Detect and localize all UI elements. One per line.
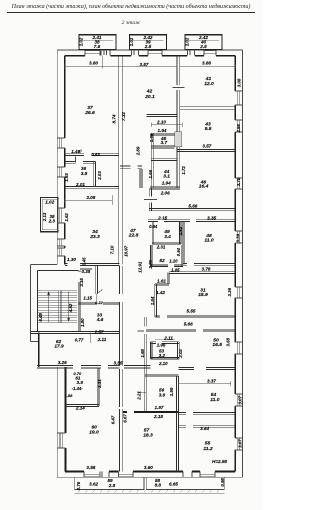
staircase down arrow: [67, 292, 70, 323]
dim 3.08: [237, 78, 242, 87]
balcony 59 area: [108, 483, 116, 488]
svg-text:0.63: 0.63: [91, 152, 100, 157]
room 53 walls: [151, 342, 180, 359]
balcony 59 outline: [75, 477, 144, 489]
svg-text:2.5: 2.5: [199, 44, 207, 49]
room 34 area: [89, 234, 100, 240]
window right wall 7: [235, 438, 242, 450]
dim 0.22: [95, 300, 104, 305]
wall between rooms 42 and 41 / 43: [177, 56, 180, 151]
svg-text:1.98: 1.98: [157, 343, 166, 348]
room 33 / stair block bottom wall: [31, 331, 120, 333]
svg-text:1.88: 1.88: [65, 393, 74, 398]
room 36 door mark: [75, 157, 77, 163]
dim 2.31 rot: [97, 379, 102, 389]
svg-text:1.61: 1.61: [157, 279, 166, 284]
dim 3.55: [114, 361, 123, 366]
window bottom wall 1: [84, 472, 100, 478]
svg-text:1.82: 1.82: [178, 226, 183, 235]
dim 1.61: [157, 279, 166, 284]
dim 2.03: [97, 171, 102, 181]
svg-text:55: 55: [205, 440, 211, 446]
room 34 number: [92, 229, 98, 235]
dim 3.07 room 54: [238, 395, 243, 404]
svg-text:12.0: 12.0: [204, 81, 214, 87]
svg-text:3.8: 3.8: [81, 171, 88, 177]
room 33 area: [96, 317, 104, 323]
room 46 left wall lower: [149, 188, 151, 211]
svg-text:1.02: 1.02: [185, 37, 190, 46]
wall between rooms 41 and 43: [180, 106, 235, 110]
stairs dim 6.48: [38, 312, 43, 321]
dimension line 2.10 rooms 44/45: [151, 123, 182, 127]
room 31 top wall: [169, 272, 235, 274]
svg-text:1.94: 1.94: [162, 181, 171, 186]
dim 7.32: [121, 112, 126, 121]
svg-text:3.68: 3.68: [226, 337, 231, 346]
dim 3.15: [79, 278, 84, 287]
dim 3.78 room 46: [236, 177, 241, 186]
staircase inner walls: [38, 271, 79, 332]
svg-text:8.8: 8.8: [155, 483, 162, 488]
svg-text:3.4: 3.4: [164, 234, 171, 240]
room 44 area: [163, 173, 170, 179]
room 31 left step: [155, 273, 169, 317]
dim 5.66 corridor: [184, 322, 193, 327]
svg-text:1.93: 1.93: [64, 173, 69, 182]
dimension ticks balcony 39: [133, 39, 164, 41]
svg-text:52: 52: [159, 258, 165, 264]
dim 7.10: [109, 245, 114, 254]
svg-text:26.6: 26.6: [84, 110, 95, 116]
room 62 area: [54, 344, 64, 350]
loggia 35 dim 1.02: [45, 199, 54, 204]
svg-text:3.35: 3.35: [207, 215, 216, 220]
dim 1.88: [65, 393, 74, 398]
dimension ticks balcony 38: [82, 39, 113, 41]
dim 2.15: [157, 215, 167, 220]
svg-text:11.0: 11.0: [204, 238, 213, 244]
window right wall 0: [235, 91, 242, 105]
balcony door 39: [132, 50, 139, 56]
dim 1.05: [171, 268, 180, 273]
room 60 number: [91, 424, 97, 430]
dim 2.89: [136, 146, 141, 156]
dim 5.55: [187, 308, 196, 313]
window right wall 6: [235, 394, 242, 406]
door corridor to room 50: [138, 330, 145, 332]
balcony door 58: [183, 472, 192, 478]
window left wall 2: [57, 167, 65, 177]
svg-text:3.7: 3.7: [160, 140, 167, 146]
loggia 35 dim 2.13: [42, 212, 47, 222]
room 46 bottom wall: [149, 208, 235, 210]
corridor 47 number: [129, 228, 136, 234]
staircase up arrow: [47, 291, 50, 322]
room 36 number: [81, 166, 87, 172]
room 57 number: [144, 427, 150, 433]
wall top of rooms 49 and 48: [148, 220, 235, 222]
room 62 left wall: [38, 332, 40, 367]
svg-text:1.97: 1.97: [155, 405, 164, 410]
svg-text:1.02: 1.02: [45, 199, 54, 204]
svg-text:20.1: 20.1: [144, 94, 155, 100]
svg-text:12.91: 12.91: [137, 261, 142, 273]
dim 1.80: [80, 318, 85, 327]
room 48 left wall: [183, 222, 185, 265]
dim 3.57 room 46: [202, 144, 211, 149]
svg-text:2.11: 2.11: [163, 336, 173, 341]
room 62 number: [56, 339, 62, 345]
corridor 47 right wall: [140, 169, 142, 188]
dimension line 3.08 room 34: [65, 195, 112, 205]
dimension ticks balcony 40: [188, 39, 219, 41]
svg-text:2.31: 2.31: [97, 379, 102, 389]
room 49 walls: [152, 222, 181, 245]
svg-text:3.39: 3.39: [235, 233, 240, 242]
dim 0.76: [76, 481, 81, 490]
svg-text:3.62: 3.62: [89, 482, 98, 487]
room 44 walls: [150, 159, 179, 189]
balcony railing line: [75, 490, 225, 493]
room 54 area: [210, 397, 219, 403]
window left wall 4: [57, 248, 65, 256]
balcony door 40: [188, 50, 195, 56]
stair corridor left wall: [78, 271, 80, 332]
svg-text:3.78: 3.78: [236, 177, 241, 186]
balcony 39 area: [144, 44, 152, 49]
room 46 area: [199, 184, 209, 190]
dim 1.44: [72, 386, 84, 391]
room 46 number: [200, 179, 207, 185]
dim 3.62: [89, 482, 98, 487]
dim 3.26: [58, 360, 67, 365]
svg-text:2.70: 2.70: [148, 260, 153, 270]
dim 3.35: [207, 215, 216, 220]
svg-text:17.9: 17.9: [54, 344, 64, 350]
dim 1.15: [83, 295, 92, 300]
room 34 bottom wall: [65, 264, 120, 266]
room 41 area: [204, 81, 214, 87]
balcony 40 dim 2.42: [198, 35, 208, 40]
dimension line 3.66 room 41: [180, 64, 235, 68]
svg-text:2.3: 2.3: [48, 218, 56, 223]
svg-text:4.52: 4.52: [68, 303, 73, 313]
balcony door 59: [102, 472, 109, 478]
svg-text:7.6: 7.6: [94, 44, 101, 49]
svg-text:3.2: 3.2: [159, 353, 166, 358]
dim 12.91: [137, 261, 142, 273]
svg-text:2.5: 2.5: [144, 44, 152, 49]
room 53 number: [159, 348, 165, 353]
dim 1.82: [178, 226, 183, 235]
room 44 number: [163, 169, 170, 175]
svg-text:0.45: 0.45: [82, 257, 87, 266]
room 61 walls: [65, 368, 99, 406]
svg-text:1.80: 1.80: [80, 318, 85, 327]
header title: [7, 3, 255, 13]
room 50 bottom wall: [179, 367, 236, 369]
svg-text:3.57: 3.57: [140, 62, 149, 67]
room 36 top wall: [65, 162, 95, 164]
dim 2.01: [75, 182, 85, 187]
svg-text:2.02: 2.02: [178, 349, 183, 359]
svg-text:1.02: 1.02: [129, 37, 134, 46]
dim 2.02: [178, 349, 183, 359]
dim 1.68 room 53: [140, 349, 145, 358]
floor label: [122, 20, 141, 26]
dim 1.30: [67, 257, 76, 262]
door to room 33: [97, 290, 103, 302]
svg-text:18.3: 18.3: [143, 432, 153, 438]
balcony 39 number: [145, 39, 151, 44]
door room 42-41: [173, 87, 185, 89]
room 43 area: [205, 126, 212, 132]
window right wall 2: [235, 178, 242, 189]
room 45 walls: [151, 133, 174, 188]
svg-text:3.78: 3.78: [202, 266, 211, 271]
svg-text:4.6: 4.6: [96, 317, 104, 323]
wall room 44 bottom / room 46 jog: [150, 150, 180, 189]
dim 2.10: [156, 119, 166, 124]
room 37 bottom wall: [65, 154, 119, 156]
dimension line 3.60 room 37: [65, 56, 122, 69]
svg-text:Н=2.98: Н=2.98: [212, 459, 227, 464]
svg-text:10.97: 10.97: [123, 245, 128, 257]
svg-text:2.03: 2.03: [97, 171, 102, 181]
svg-text:23.3: 23.3: [89, 234, 100, 240]
room 57 area: [143, 432, 153, 438]
svg-text:1.02: 1.02: [79, 37, 84, 46]
svg-text:11.2: 11.2: [203, 446, 212, 452]
room 48 bottom wall: [183, 263, 235, 265]
dimension tick room 62: [89, 332, 91, 342]
balcony 38 number: [94, 39, 100, 44]
dim 0.45: [82, 257, 87, 266]
svg-text:3.57: 3.57: [202, 144, 211, 149]
dim 0.38: [82, 269, 91, 274]
door corridor to room 46: [144, 198, 157, 200]
room 56 area: [159, 393, 166, 398]
svg-text:1.15: 1.15: [83, 295, 92, 300]
svg-text:0.98: 0.98: [220, 478, 225, 487]
svg-text:1.68: 1.68: [140, 349, 145, 358]
svg-text:3.9: 3.9: [159, 393, 166, 398]
svg-text:2.10: 2.10: [158, 361, 168, 366]
window right wall 3: [235, 231, 242, 243]
svg-text:0.77: 0.77: [75, 337, 84, 342]
room 55 number: [205, 440, 211, 446]
staircase center divider: [58, 291, 61, 324]
svg-text:2.31: 2.31: [156, 245, 166, 250]
svg-text:0.94: 0.94: [149, 224, 158, 229]
svg-text:2.13: 2.13: [42, 212, 47, 222]
svg-text:3.08: 3.08: [86, 195, 95, 200]
room 45 number: [160, 136, 167, 142]
svg-text:1.42: 1.42: [156, 290, 165, 295]
svg-text:9.5: 9.5: [205, 126, 212, 132]
break symbol near 1.48: [79, 150, 83, 153]
balcony 58 outline: [146, 477, 224, 489]
wall room 43 bottom / room 46 top: [177, 150, 235, 152]
room 48 area: [204, 238, 213, 244]
dim 1.93: [64, 173, 69, 182]
dim 0.77: [75, 337, 84, 342]
room 56 number: [159, 388, 165, 393]
outer wall stair block: [31, 265, 58, 342]
svg-text:6.67: 6.67: [123, 414, 128, 423]
svg-text:3.36: 3.36: [227, 287, 232, 296]
svg-text:2.56: 2.56: [236, 124, 241, 134]
room 52 walls: [151, 245, 183, 267]
svg-text:2.11: 2.11: [97, 337, 107, 342]
dim 3.68: [226, 337, 231, 346]
staircase treads: [38, 291, 77, 323]
svg-text:3.37: 3.37: [207, 379, 216, 384]
svg-text:42: 42: [146, 89, 153, 95]
svg-text:1.48: 1.48: [71, 149, 80, 154]
room 61 area: [77, 380, 84, 385]
balcony 40 dim 1.02: [185, 37, 190, 46]
room 36 bottom wall / room 34 top wall: [65, 186, 119, 188]
room 56 walls: [144, 375, 178, 411]
balcony 59 number: [107, 478, 113, 483]
dim 0.63: [91, 152, 100, 157]
outer wall right: [242, 50, 244, 477]
svg-text:3.26: 3.26: [58, 360, 67, 365]
window under balcony 38: [85, 50, 100, 56]
balcony 38 dim 2.41: [92, 35, 102, 40]
room 54 number: [211, 392, 217, 398]
dim 1.84: [150, 296, 155, 305]
dim 1.94 room 44: [162, 181, 171, 186]
svg-text:16.4: 16.4: [199, 184, 209, 190]
window to loggia 35: [57, 208, 65, 223]
balcony 58 area: [155, 483, 162, 488]
corridor 47 jog wall (top): [120, 166, 142, 169]
dim 3.58: [86, 465, 95, 470]
dim 1.94 room 45: [158, 128, 167, 133]
room 53 area: [159, 353, 166, 358]
dim 6.65: [169, 481, 178, 486]
balcony 38 outline: [79, 35, 116, 50]
room 50 area: [212, 342, 222, 348]
dim 2.11 room 53: [163, 336, 173, 341]
svg-text:1.68: 1.68: [149, 133, 154, 142]
svg-text:1.66: 1.66: [148, 169, 153, 178]
svg-text:5.66: 5.66: [184, 322, 193, 327]
big wall above rooms 61/60 (y=366): [37, 366, 151, 368]
svg-text:7.32: 7.32: [121, 112, 126, 121]
dim 0.98: [220, 478, 225, 487]
window under balcony 40: [204, 50, 216, 56]
svg-text:6.47: 6.47: [111, 415, 116, 424]
room 37 number: [87, 105, 93, 111]
room 45 area: [160, 140, 167, 146]
svg-text:1.10: 1.10: [169, 259, 178, 264]
room 41 number: [205, 76, 212, 82]
dim 1.42: [156, 290, 165, 295]
window under balcony 39: [148, 50, 162, 56]
window right wall 4: [235, 287, 242, 298]
dim 1.99: [169, 387, 174, 396]
dim 3.60: [89, 61, 98, 66]
room 42 number: [146, 89, 153, 95]
svg-text:0.38: 0.38: [82, 269, 91, 274]
rooms 53/56 block left wall: [144, 317, 146, 376]
svg-text:3.66: 3.66: [202, 60, 211, 65]
corridor arm bottom / room 50 top wall: [146, 329, 235, 331]
dim 2.21 corridor: [137, 391, 142, 401]
dim 3.08 room 34: [86, 195, 95, 200]
loggia 35 area: [48, 218, 56, 223]
dim 0.94 room 49: [149, 224, 158, 229]
room 31 bottom wall: [155, 316, 235, 318]
dim 1.68 room 45: [149, 133, 154, 142]
dim 3.57: [140, 62, 149, 67]
dim 1.48: [71, 149, 80, 154]
room 42 area: [144, 94, 155, 100]
dim 6.47: [111, 415, 116, 424]
dim 1.66 room 44: [148, 169, 153, 178]
svg-text:2.18: 2.18: [153, 414, 163, 419]
balcony 39 outline: [130, 35, 167, 50]
svg-text:0.76: 0.76: [76, 481, 81, 490]
balcony 58 number: [155, 478, 161, 483]
wall corridor spine lower: [119, 266, 122, 472]
wall room 42 bottom: [146, 115, 177, 117]
svg-text:1.84: 1.84: [150, 296, 155, 305]
svg-text:11.0: 11.0: [210, 397, 219, 403]
svg-text:22.8: 22.8: [128, 233, 139, 239]
svg-text:1.30: 1.30: [67, 257, 76, 262]
dim 0.94 rot: [176, 247, 181, 256]
svg-text:6.48: 6.48: [38, 312, 43, 321]
svg-text:3.07: 3.07: [238, 439, 243, 448]
room 31 area: [198, 292, 208, 298]
room 49 number: [163, 229, 170, 235]
svg-text:8.74: 8.74: [112, 114, 117, 123]
dim 2.57: [94, 330, 104, 335]
window left wall 3: [57, 239, 65, 246]
svg-text:5.66: 5.66: [188, 203, 197, 208]
dim 2.56: [236, 124, 241, 134]
dim 2.18 room 57: [153, 414, 163, 419]
dim 2.31 room 52: [156, 245, 166, 250]
height mark: [212, 459, 227, 464]
balcony 39 dim 1.02: [129, 37, 134, 46]
window right wall 1: [235, 120, 242, 132]
dim 3.60 room 55: [144, 465, 153, 470]
room 54 bottom wall: [178, 412, 235, 414]
room 36 right wall: [94, 162, 96, 188]
window right wall 5: [235, 342, 242, 354]
room 55 area: [203, 446, 212, 452]
dim 2.70: [148, 260, 153, 270]
svg-text:3.08: 3.08: [237, 78, 242, 87]
svg-text:5.55: 5.55: [187, 308, 196, 313]
balcony 38 area: [94, 44, 101, 49]
dim 1.62: [64, 213, 69, 222]
svg-text:15.9: 15.9: [198, 292, 208, 298]
svg-text:2.01: 2.01: [75, 182, 85, 187]
svg-text:3.60: 3.60: [144, 465, 153, 470]
outer wall top: [57, 49, 242, 51]
svg-text:2.15: 2.15: [157, 215, 167, 220]
balcony 39 dim 2.42: [143, 35, 153, 40]
dim 10.97: [123, 245, 128, 257]
stairs dim 4.52: [68, 303, 73, 313]
